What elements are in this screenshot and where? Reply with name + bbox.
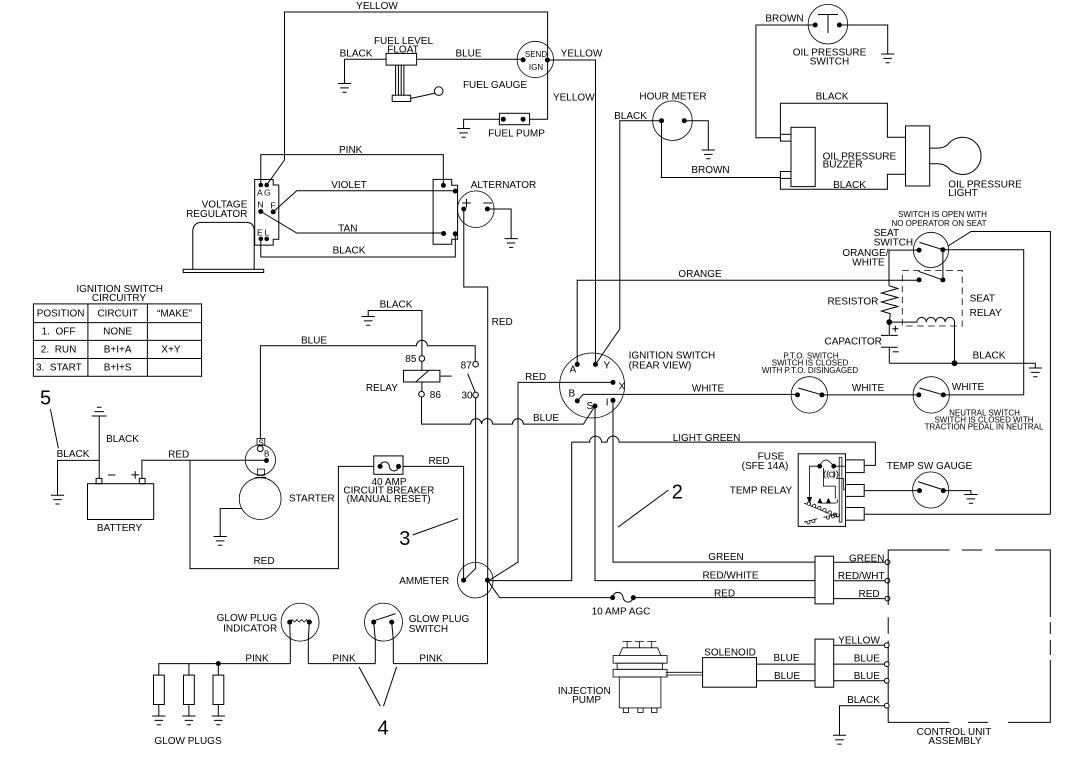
node neutral right [941,392,946,397]
svg-text:3. START: 3. START [36,363,82,374]
node resistor capacitor junction [886,319,892,325]
svg-text:CIRCUITRY: CIRCUITRY [92,293,147,304]
wire RED alternator plus down to ammeter right dot [464,209,488,580]
wire RED battery plus to starter B [142,460,267,478]
svg-text:A: A [570,365,577,376]
oil pressure light socket [906,126,930,186]
wire RED/WHT connector to control unit [834,580,885,582]
node pto right [819,392,824,397]
wire temp gauge to ground [943,491,971,495]
svg-text:ALTERNATOR: ALTERNATOR [471,180,537,191]
node alt plug bottom-right [453,231,458,236]
svg-text:4: 4 [378,718,389,740]
oil pressure switch circle [808,4,848,44]
starter solenoid circle [245,445,275,475]
node ignition Y [593,362,598,367]
svg-text:(SFE 14A): (SFE 14A) [742,461,789,472]
node black coil junction [952,360,958,366]
wire YELLOW connector to control unit [834,644,884,646]
wire BLUE relay 86 to ignition S with hops [422,397,596,424]
wire WHITE ignition B to PTO switch [577,394,797,401]
wire fuel gauge down to fuel pump [530,60,548,119]
wire BLUE float to fuel gauge [417,58,523,60]
node starter B [264,458,269,463]
svg-text:B: B [264,450,269,459]
svg-text:E: E [257,228,263,238]
solenoid box [703,658,757,688]
relay switch contact dash [440,375,452,377]
ground alternator [505,239,518,248]
connector block upper [815,556,834,604]
ground fuel pump [457,129,470,138]
svg-text:87: 87 [461,360,473,371]
callout line 3 [413,519,458,535]
callout line 5 [50,409,58,448]
ground battery left [51,495,64,504]
node seat relay right [940,277,945,282]
wire black float lead [345,59,387,83]
temp relay bimetal strip [839,457,842,522]
svg-text:RED/WHITE: RED/WHITE [702,570,758,581]
svg-text:3: 3 [399,528,410,550]
battery body [88,478,154,519]
wire glow indicator legs [290,622,310,664]
svg-text:POSITION: POSITION [37,308,85,319]
node agc fuse right [631,595,636,600]
ground float black lead [338,84,351,93]
ground battery negative top (inverted) [92,407,107,416]
svg-text:WHITE: WHITE [852,257,885,268]
wire battery negative stem [98,416,100,478]
wire ORANGE ignition A to seat relay [577,280,919,364]
wire temp relay bottom tab to right riser [864,513,1050,515]
node temp fuse right [831,464,836,469]
ignition switch circle [560,353,625,418]
pto switch circle [791,377,827,413]
capacitor minus [893,351,899,353]
node pto left [795,392,800,397]
wire TAN N pin to alternator plug [261,212,444,234]
temp relay heater coil 2 [824,514,840,520]
wire BLUE connector to control top [834,663,884,665]
svg-text:TEMP SW GAUGE: TEMP SW GAUGE [887,461,973,472]
alternator connector body [433,179,458,244]
svg-text:PINK: PINK [419,654,443,665]
wire fuel pump left lead [464,119,500,128]
wire BLACK relay 85 to ground [368,311,422,356]
glow plug indicator circle [281,603,319,641]
svg-text:SWITCH: SWITCH [874,238,913,249]
neutral switch arm [920,388,942,394]
svg-text:5: 5 [40,388,51,410]
wire BLACK battery negative left lead [58,460,100,495]
svg-text:GREEN: GREEN [708,552,744,563]
wire temp fuse left arm with arrow [810,466,820,497]
svg-text:FUEL PUMP: FUEL PUMP [488,129,545,140]
temp gauge arm [918,482,943,490]
node seat switch right [940,247,945,252]
svg-text:B: B [569,389,576,400]
glow plug switch arm [374,614,395,621]
node control red [885,596,890,601]
svg-text:BLUE: BLUE [301,336,327,347]
svg-text:85: 85 [405,354,417,365]
ammeter circle [458,562,494,598]
node fuel pump right [521,117,526,122]
svg-text:“MAKE”: “MAKE” [157,308,192,319]
seat switch circle [913,232,948,267]
node ammeter left [461,578,466,583]
temp relay heater coil 3 [804,519,817,524]
svg-text:YELLOW: YELLOW [356,1,398,12]
node regulator L [264,237,269,242]
node control yellow [884,643,889,648]
node control blue bottom [884,678,889,683]
svg-text:G: G [264,188,271,198]
wire ignition I down to green [613,400,815,562]
temp relay coil [824,471,838,479]
svg-text:SWITCH: SWITCH [409,624,448,635]
label alternator plus [462,199,471,208]
svg-text:BLACK: BLACK [816,92,849,103]
wire BROWN hour meter to buzzer lower tab [661,121,781,178]
node alt plug top-left [441,183,446,188]
node seat switch left [917,248,922,253]
svg-text:RED: RED [168,450,189,461]
node regulator F [271,209,276,214]
temp relay box [798,454,845,527]
svg-text:TEMP RELAY: TEMP RELAY [730,486,793,497]
fuel pump box [499,113,529,124]
wire BLACK buzzer bottom [780,174,905,189]
node temp fuse left [817,464,822,469]
wire BROWN oil switch left down to buzzer top tab [756,25,815,138]
svg-text:SEND: SEND [525,50,547,59]
svg-text:BROWN: BROWN [765,14,803,25]
wire PINK regulator A to alternator plug [261,155,444,186]
svg-text:X+Y: X+Y [161,345,181,356]
wire hour meter right to ground [684,121,708,150]
node ignition A [575,362,580,367]
svg-text:2. RUN: 2. RUN [41,345,77,356]
svg-text:WITH P.T.O. DISINGAGED: WITH P.T.O. DISINGAGED [762,366,859,375]
wire ammeter right to light green riser [488,442,572,580]
svg-text:SOLENOID: SOLENOID [704,648,756,659]
fuse 10 AMP AGC [613,592,634,602]
svg-text:L: L [265,228,270,238]
svg-text:86: 86 [430,390,442,401]
svg-text:(MANUAL RESET): (MANUAL RESET) [347,494,431,505]
wire RED connector to control unit [834,598,885,600]
node seat relay left [917,277,922,282]
seat switch arm [920,242,943,249]
node glow plug junction [216,661,221,666]
injection pump link rod [666,672,703,675]
wire RED battery loop down to circuit breaker [190,460,374,568]
relay switch arm [468,373,476,392]
wire BLUE solenoid top [757,663,816,665]
svg-text:2: 2 [672,482,683,504]
capacitor plus [892,326,898,332]
fuel level float assembly [386,53,443,101]
node fuel gauge SEND [521,57,526,62]
wire BLACK hour meter to ignition Y pin [596,121,662,365]
capacitor plates [881,322,898,363]
svg-text:N: N [258,200,264,210]
circuit breaker box [374,456,403,474]
injection pump body [613,642,667,713]
svg-text:WHITE: WHITE [952,382,985,393]
svg-text:RED: RED [253,556,274,567]
wire LIGHT GREEN ammeter to temp relay with hops [572,436,876,465]
ground seat relay black [1029,368,1042,377]
node control blue top [884,662,889,667]
svg-text:BLACK: BLACK [333,246,366,257]
svg-text:RELAY: RELAY [366,383,398,394]
node glow indicator left [287,620,292,625]
starter motor circle [239,478,281,520]
wire alternator minus to ground [487,209,511,239]
wire BLACK buzzer top [780,103,905,137]
oil pressure light bulb [930,137,981,174]
node regulator G [264,183,269,188]
svg-text:BLACK: BLACK [57,449,90,460]
glow plug 1 [154,675,165,716]
starter lower terminal box [258,469,265,475]
svg-text:BLUE: BLUE [533,413,559,424]
node relay 87 [473,361,479,367]
node oil switch right [837,23,842,28]
svg-text:BLUE: BLUE [854,654,880,665]
glow plug switch circle [365,603,403,641]
pto switch arm [798,388,820,394]
circuit breaker element [380,462,398,471]
svg-text:INDICATOR: INDICATOR [223,624,277,635]
wire BLACK control to ground [840,706,885,736]
node control green [885,560,890,565]
svg-text:ASSEMBLY: ASSEMBLY [928,736,981,747]
svg-text:B+I+S: B+I+S [104,363,132,374]
svg-text:GLOW PLUG: GLOW PLUG [217,613,278,624]
node oil switch left [813,23,818,28]
svg-text:RED: RED [428,456,449,467]
node breaker left [378,464,383,469]
ground relay black [362,317,375,326]
voltage regulator connector body [255,180,279,246]
wire ignition S down to red/white [595,406,815,581]
svg-text:BLACK: BLACK [106,434,139,445]
svg-text:CIRCUIT: CIRCUIT [97,308,138,319]
wire BLACK E pin to alternator plug [261,234,456,257]
control unit assembly dashed box [888,550,1050,722]
node relay 86 [419,391,425,397]
wire oil switch right to ground [839,25,887,54]
table ignition switch circuitry [33,304,201,376]
svg-text:PUMP: PUMP [572,695,601,706]
svg-text:1. OFF: 1. OFF [42,327,76,338]
svg-text:BLACK: BLACK [973,351,1006,362]
temp relay middle tab [846,485,865,497]
seat relay dashed box [902,270,962,326]
seat relay coil [889,317,954,363]
svg-text:GLOW PLUGS: GLOW PLUGS [154,736,222,747]
ground oil switch [881,54,894,63]
svg-text:SEAT: SEAT [970,294,995,305]
svg-text:SWITCH IS OPEN WITH: SWITCH IS OPEN WITH [898,210,987,219]
svg-text:AMMETER: AMMETER [399,576,449,587]
wire temp relay middle tab to gauge [864,490,919,492]
starter small circle [257,446,263,452]
svg-text:YELLOW: YELLOW [553,93,595,104]
node breaker right [396,464,401,469]
temp relay internal wiring [823,468,845,499]
svg-text:STARTER: STARTER [289,494,335,505]
glow plug 3 [213,664,224,716]
svg-text:BLACK: BLACK [847,695,880,706]
node ignition S [593,404,598,409]
ground hour meter [702,150,715,159]
starter S terminal box [257,438,265,445]
wire seat switch diagonal to right edge down to temp relay [948,232,1050,515]
node regulator N [258,209,263,214]
wire BLACK capacitor to ground [889,363,1035,368]
wire RED X pin from relay area [490,382,613,579]
wire PINK indicator to glow plugs [159,664,290,676]
svg-text:10 AMP AGC: 10 AMP AGC [592,607,651,618]
temp relay top tab [846,460,865,473]
node glow indicator right [307,620,312,625]
node alternator plus [461,207,466,212]
node alternator minus [485,207,490,212]
wire VIOLET F pin to alternator plug [273,191,455,212]
starter base bar [255,476,266,478]
temp relay fuse element [820,460,834,466]
wire GREEN connector to control unit [834,561,885,563]
ground glow plug 1 [152,716,165,725]
svg-text:I: I [606,398,609,409]
svg-text:FUEL GAUGE: FUEL GAUGE [463,80,527,91]
node fuel pump left [501,117,506,122]
ground glow plug 3 [212,716,225,725]
glow plug indicator filament [290,620,309,623]
node glow switch left [371,620,376,625]
svg-text:WHITE: WHITE [852,383,885,394]
wire PINK switch to indicator [308,663,375,665]
wire seat switch right dot down to relay contact [942,250,944,280]
node alt plug top-right [453,189,458,194]
ground starter [214,537,227,546]
svg-text:A: A [257,188,263,198]
svg-text:RED: RED [858,589,879,600]
node neutral left [916,392,921,397]
node hour meter left [659,118,664,123]
neutral switch circle [913,377,949,413]
node alt plug bottom-left [441,231,446,236]
glow plug 2 [184,664,195,716]
node ammeter right [485,578,490,583]
svg-text:BLACK: BLACK [833,180,866,191]
wire BLUE starter S up to relay 87 [260,340,475,438]
control unit left edge segments [887,617,889,710]
temp sw gauge circle [913,472,949,508]
oil pressure buzzer body [780,127,815,186]
node ignition I [611,398,616,403]
wire relay 30 down to ammeter left dot [464,398,476,581]
svg-text:B+I+A: B+I+A [104,345,132,356]
temp relay heater arrows [817,498,831,503]
node fuel gauge IGN [545,58,550,63]
node relay 30 [473,392,479,398]
svg-text:SWITCH: SWITCH [810,57,849,68]
seat relay switch arm [919,271,942,279]
svg-text:WHITE: WHITE [692,383,725,394]
node temp gauge right [941,488,946,493]
wire glow switch legs [374,622,394,664]
oil pressure switch T contact [818,15,838,34]
node relay 85 [419,356,425,362]
ground temp gauge [964,495,977,504]
svg-text:NO OPERATOR ON SEAT: NO OPERATOR ON SEAT [891,219,986,228]
wire RED breaker to ammeter left dot [403,466,464,580]
connector block lower [815,639,834,687]
label battery plus [131,471,139,479]
svg-text:PINK: PINK [245,654,269,665]
svg-text:BLUE: BLUE [773,653,799,664]
wire WHITE pto to neutral switch [822,394,919,396]
wire ORANGE/WHITE seat switch to neutral switch [889,250,1024,395]
node control black [884,703,889,708]
relay coil box [404,361,440,391]
svg-text:Y: Y [604,361,611,372]
svg-text:TRACTION PEDAL IN NEUTRAL: TRACTION PEDAL IN NEUTRAL [925,423,1044,432]
svg-text:IGN: IGN [529,63,543,72]
wire temp fuse to top tab [834,465,846,467]
svg-text:X: X [619,382,626,393]
node hour meter right [682,118,687,123]
resistor zigzag [882,286,898,322]
svg-text:BLUE: BLUE [455,49,481,60]
ground control black [833,735,846,744]
wire starter motor to ground [220,509,242,537]
fuel gauge circle [517,41,553,77]
svg-text:CAPACITOR: CAPACITOR [824,337,881,348]
wire BLUE solenoid bottom [757,680,816,682]
svg-text:ORANGE: ORANGE [678,269,722,280]
label battery minus [108,474,116,476]
svg-text:BUZZER: BUZZER [823,160,863,171]
node glow switch right [389,620,394,625]
svg-text:BLACK: BLACK [340,49,373,60]
wire BLUE connector to control bottom [834,680,884,682]
svg-text:LIGHT: LIGHT [948,188,977,199]
temp relay bottom tab [846,508,865,521]
svg-text:BATTERY: BATTERY [97,523,143,534]
svg-text:RESISTOR: RESISTOR [827,297,878,308]
svg-text:YELLOW: YELLOW [561,49,603,60]
temp relay heater coil 1 [804,502,838,517]
svg-text:30: 30 [461,390,473,401]
voltage regulator body dome [183,222,264,272]
svg-text:F: F [271,201,276,211]
temp relay arrow head [807,497,812,504]
wire RED ammeter to control unit [488,580,816,597]
wire YELLOW top loop from fuel gauge IGN to voltage regulator G pin [267,12,548,185]
node agc fuse left [610,595,615,600]
callout line 2 [618,490,668,527]
svg-text:RED: RED [714,588,735,599]
node control red/wht [885,578,890,583]
svg-text:RED/WHT: RED/WHT [838,571,885,582]
